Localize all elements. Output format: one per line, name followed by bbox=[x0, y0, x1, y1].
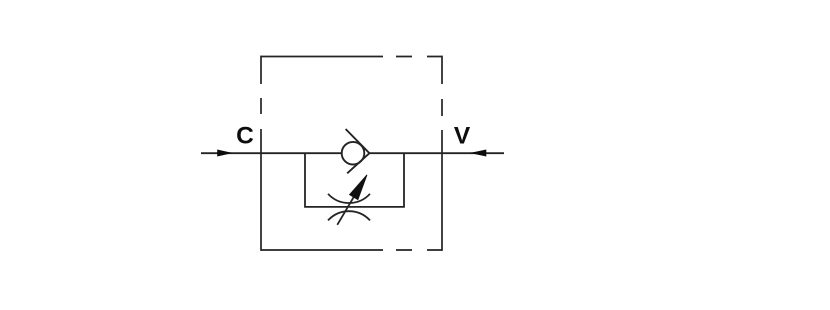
throttle (variable restrictor) upper arc bbox=[328, 194, 370, 203]
enclosure: dashed valve body outline, left edge bbox=[260, 56, 262, 251]
svg-text:V: V bbox=[454, 123, 471, 150]
port label C bbox=[236, 123, 254, 150]
svg-text:C: C bbox=[236, 123, 254, 150]
throttle adjustment arrow shaft bbox=[337, 193, 356, 225]
port label V bbox=[454, 123, 471, 150]
flow arrow at port V (pointing left) bbox=[471, 150, 486, 156]
throttle adjustment arrow head bbox=[350, 175, 368, 200]
throttle (variable restrictor) lower arc bbox=[328, 211, 370, 220]
wire: bypass loop (left drop, bottom run, right rise) bbox=[305, 153, 404, 207]
wire: main line, check valve seat to port V bbox=[369, 152, 504, 154]
enclosure: dashed valve body outline, bottom edge bbox=[261, 249, 442, 251]
check valve seat bbox=[346, 129, 370, 173]
enclosure: dashed valve body outline, top edge bbox=[261, 56, 442, 58]
enclosure: dashed valve body outline, right edge bbox=[441, 56, 443, 251]
flow arrow at port C (pointing right) bbox=[218, 150, 232, 156]
wire: main line, port C to check valve bbox=[201, 152, 343, 154]
check valve ball bbox=[342, 142, 365, 165]
